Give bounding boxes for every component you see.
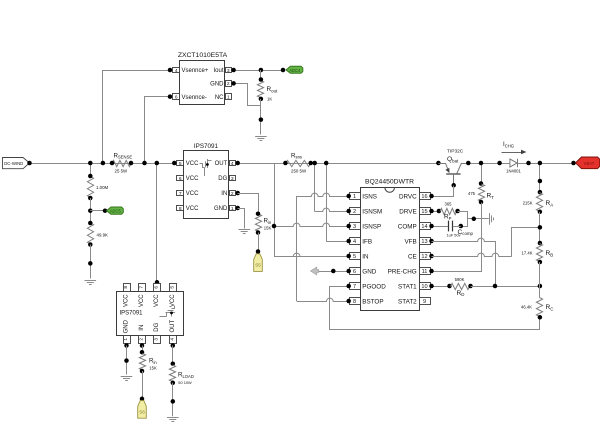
node input arrow at GND pin6 (311, 267, 351, 275)
resistor RC 46.4K (536, 298, 542, 320)
wire U1 pin2 to Rin (238, 194, 259, 214)
svg-text:GND: GND (214, 206, 228, 212)
wire RA to junction (538, 212, 543, 243)
svg-text:365: 365 (445, 201, 453, 206)
pin 2 U3 (ISNSM) (350, 208, 383, 216)
pin 1 U2 (226, 94, 232, 101)
label RD (455, 277, 465, 297)
pin 14 U3 (COMP) (398, 223, 431, 231)
pin 4 U3 (IFB) (350, 238, 373, 246)
svg-text:475: 475 (468, 191, 476, 196)
pin 6 U3 (GND) (350, 268, 377, 276)
pin 4 U1 (230, 161, 240, 167)
pin 1 U1 (230, 206, 240, 212)
resistor 1.00M (87, 174, 93, 201)
resistor Rsns (283, 160, 313, 166)
svg-text:VCC: VCC (170, 294, 176, 307)
node S5 tag (254, 254, 263, 272)
svg-text:10: 10 (421, 284, 427, 290)
svg-text:7: 7 (353, 284, 356, 290)
svg-text:DRVC: DRVC (399, 193, 417, 200)
svg-text:9: 9 (423, 299, 426, 305)
svg-text:1uF 50v: 1uF 50v (447, 233, 461, 238)
svg-text:12: 12 (421, 254, 427, 260)
pin 13 U3 (VFB) (404, 238, 430, 246)
svg-text:17.4K: 17.4K (522, 251, 533, 256)
pin 15 U3 (DRVE) (399, 208, 430, 216)
mosfet symbol inside U4 (160, 306, 176, 317)
svg-text:590K: 590K (455, 277, 465, 282)
svg-text:OUT: OUT (215, 161, 228, 167)
wire RP to COMP node (458, 212, 468, 229)
svg-text:15K: 15K (149, 366, 157, 371)
wire main DC-WIND bus (30, 163, 439, 165)
pin 8 U4 (123, 284, 131, 292)
wire divider middle (88, 198, 93, 223)
svg-text:5: 5 (179, 161, 182, 167)
svg-text:IFB: IFB (362, 238, 372, 245)
pin 9 U3 (STAT2) (398, 298, 430, 306)
svg-text:ISNS: ISNS (362, 193, 377, 200)
svg-text:15K: 15K (264, 226, 272, 231)
wire CE net (429, 228, 539, 259)
svg-text:2: 2 (227, 81, 230, 87)
svg-text:VCC: VCC (124, 294, 130, 307)
svg-text:3: 3 (227, 68, 230, 74)
label RLOAD (178, 372, 194, 386)
node S6 tag (138, 401, 147, 419)
svg-text:DG: DG (218, 176, 227, 182)
wire COMP to Ccomp (429, 224, 448, 229)
svg-text:1K: 1K (267, 96, 272, 101)
svg-text:ISNSP: ISNSP (362, 223, 381, 230)
svg-text:4: 4 (175, 68, 178, 74)
svg-text:PRE-CHG: PRE-CHG (388, 268, 417, 275)
wire DRVE to RP (429, 209, 441, 214)
wire bus to RA (538, 161, 543, 195)
svg-text:VCC: VCC (186, 176, 199, 182)
transistor Qbat TIP32C (436, 161, 470, 188)
pin 6 U2 (173, 94, 180, 101)
pin 7 U1 (177, 191, 184, 197)
svg-text:8: 8 (179, 206, 182, 212)
label U4 pin names (124, 294, 176, 334)
svg-text:BSTOP: BSTOP (362, 298, 383, 305)
resistor RB 17.4K (536, 241, 542, 265)
wire STAT1 to RD (429, 284, 452, 289)
svg-text:Vsennce-: Vsennce- (182, 95, 207, 101)
label RT (468, 191, 494, 200)
svg-text:8: 8 (123, 286, 129, 289)
svg-text:16: 16 (421, 194, 427, 200)
svg-text:VCC: VCC (186, 161, 199, 167)
pin 6 U1 (177, 176, 184, 182)
label Rin lower (149, 358, 157, 371)
pin 3 U2 (226, 68, 232, 74)
pin 1 U4 (123, 336, 131, 348)
pin 6 U4 (154, 284, 161, 292)
wire 49.9K to ground (88, 245, 93, 279)
wire VFB net (429, 238, 495, 286)
pin 5 U1 (172, 161, 183, 167)
ground (divider) (85, 281, 97, 285)
resistor RA 215K (536, 193, 542, 215)
label 1.00M (96, 185, 109, 190)
wire BSTOP net (pin8) (297, 298, 351, 303)
resistor RT 475 (478, 184, 484, 204)
wire DRVC to base (429, 186, 453, 199)
resistor RLOAD (169, 365, 175, 385)
wire RT to PRE-CHG (429, 203, 481, 274)
wire PGOOD net (pin7 to bottom rail) (330, 284, 540, 330)
svg-text:2: 2 (231, 191, 234, 197)
ic U3 BQ24450DWTR body (361, 179, 420, 311)
wire comp node to ground (468, 217, 489, 222)
pin 8 U3 (BSTOP) (350, 298, 384, 306)
wire ISNS net (pin1 to BSTOP riser) (297, 193, 351, 301)
label TIP32C (447, 149, 464, 155)
label RC (521, 304, 553, 311)
resistor Rin (upper) (255, 211, 261, 234)
svg-text:25 5W: 25 5W (115, 168, 129, 173)
pin 2 U4 (139, 336, 146, 348)
svg-text:5: 5 (169, 286, 175, 289)
pin 12 U3 (CE) (408, 253, 431, 261)
wire U4 pin2 to Rin2 (140, 346, 145, 355)
svg-text:5: 5 (353, 254, 356, 260)
svg-text:DRVE: DRVE (399, 208, 416, 215)
pin 10 U3 (STAT1) (398, 283, 430, 291)
svg-text:ZXCT1010E5TA: ZXCT1010E5TA (178, 52, 228, 59)
svg-text:49.9K: 49.9K (97, 233, 109, 238)
resistor Rout (257, 70, 263, 101)
svg-text:DG: DG (154, 322, 160, 331)
svg-text:4: 4 (169, 338, 175, 341)
ground (U1 pin1) (238, 230, 250, 234)
wire ISNSM net (pin2) (315, 208, 351, 213)
pin 2 U2 (226, 81, 232, 88)
svg-text:NC: NC (215, 95, 224, 101)
svg-text:2: 2 (353, 209, 356, 215)
resistor RSENSE (110, 160, 134, 166)
label RB (522, 250, 554, 257)
wire bus to U4 VCC pin6 (155, 161, 160, 285)
svg-text:1: 1 (123, 338, 129, 341)
wire Iout net (U2 pin3 to ADC4) (231, 68, 285, 73)
node ICHG current arrow (502, 141, 527, 154)
svg-text:6: 6 (179, 176, 182, 182)
svg-text:6: 6 (154, 286, 160, 289)
resistor 49.9K (87, 221, 93, 247)
svg-text:STAT2: STAT2 (398, 298, 417, 305)
label Qbat (447, 156, 459, 163)
ground (Rout) (255, 137, 267, 141)
svg-text:S5: S5 (255, 263, 261, 268)
svg-text:250 5W: 250 5W (291, 168, 307, 173)
wire U4 pin4 to RLOAD (171, 346, 176, 366)
svg-text:GND: GND (210, 82, 224, 88)
wire bus to IFB (324, 161, 329, 242)
svg-text:14: 14 (421, 224, 427, 230)
pin 8 U1 (177, 206, 184, 212)
resistor Rin lower 15K (139, 354, 145, 374)
wire bus to IN (vertical A) (275, 164, 349, 257)
pin 5 U3 (IN) (350, 253, 370, 261)
svg-text:1: 1 (353, 194, 356, 200)
svg-text:IPS7091: IPS7091 (120, 311, 144, 317)
svg-text:IN: IN (362, 253, 369, 260)
label Rsns (291, 152, 307, 173)
wire IFB net (pin4) (326, 239, 351, 244)
pin 1 U3 (ISNS) (350, 193, 378, 201)
svg-text:50 10W: 50 10W (178, 380, 192, 385)
svg-text:11: 11 (422, 269, 428, 275)
pin 4 U4 (169, 336, 176, 348)
svg-text:1: 1 (227, 94, 230, 100)
wire ISNSP net (pin3) (272, 223, 351, 228)
node ADC5 tag (107, 207, 124, 214)
svg-text:BQ24450DWTR: BQ24450DWTR (365, 179, 414, 186)
label RSENSE value (114, 152, 133, 173)
wire bus to RT (479, 161, 484, 186)
wire Rin to S5 (256, 233, 261, 254)
pin 5 U4 (169, 284, 176, 292)
svg-text:8: 8 (353, 299, 356, 305)
node DC-WIND input tag (3, 158, 32, 169)
pin 2 U1 (230, 191, 240, 197)
svg-text:4: 4 (353, 239, 356, 245)
svg-text:ADC5: ADC5 (110, 209, 122, 214)
svg-text:1: 1 (231, 206, 234, 212)
svg-text:VBAT: VBAT (584, 161, 595, 166)
svg-text:CE: CE (408, 253, 417, 260)
mosfet symbol inside U1 (200, 159, 212, 176)
svg-text:TIP32C: TIP32C (447, 149, 464, 155)
pin 3 U3 (ISNSP) (350, 223, 382, 231)
wire U2 pin2 GND net (231, 81, 260, 105)
capacitor Ccomp (449, 221, 461, 232)
svg-text:46.4K: 46.4K (521, 305, 532, 310)
label U1 pin names (186, 161, 228, 212)
wire IN net hop (274, 253, 351, 258)
node VBAT output tag (571, 157, 600, 169)
wire Vsennce- net (bus to U2 pin6) (142, 94, 172, 165)
label Rout value (267, 86, 279, 101)
label Rin upper (264, 218, 272, 231)
svg-text:13: 13 (421, 239, 427, 245)
wire RB to junction (539, 262, 541, 286)
svg-text:7: 7 (179, 191, 182, 197)
wire ADC5 stub (90, 208, 107, 213)
wire Vsennce+ net (bus to U2 pin4) (101, 68, 173, 166)
svg-text:STAT1: STAT1 (398, 283, 417, 290)
diode D1 1N4001 (497, 159, 530, 174)
wire RD to divider (471, 284, 543, 289)
svg-text:3: 3 (154, 338, 160, 341)
svg-text:VCC: VCC (186, 191, 199, 197)
label U2 pin names (182, 68, 225, 101)
svg-text:IPS7091: IPS7091 (194, 143, 219, 150)
svg-text:VCC: VCC (154, 294, 160, 307)
pin 16 U3 (DRVC) (399, 193, 431, 201)
wire U1 pin1 to ground (238, 209, 245, 229)
svg-text:1.00M: 1.00M (96, 185, 109, 190)
op-amp U2 ZXCT1010E5TA body (178, 52, 228, 104)
wire RLOAD to ground (171, 383, 176, 416)
svg-text:VCC: VCC (139, 294, 145, 307)
svg-text:PGOOD: PGOOD (362, 283, 386, 290)
svg-text:S6: S6 (139, 409, 145, 414)
svg-text:4: 4 (231, 161, 234, 167)
svg-text:GND: GND (362, 268, 376, 275)
svg-text:ISNSM: ISNSM (362, 208, 382, 215)
wire Rout to ground (259, 99, 264, 135)
wire U4 pin1 to ground (124, 346, 129, 375)
svg-text:IN: IN (221, 191, 227, 197)
svg-text:ADC4: ADC4 (289, 68, 301, 73)
wire bus to ISNSM (312, 161, 317, 212)
ground (RLOAD) (167, 418, 179, 422)
node ADC4 tag (286, 66, 303, 73)
label Ccomp (447, 229, 474, 238)
svg-text:2: 2 (139, 338, 145, 341)
resistor RD 590K (451, 283, 473, 289)
wire junction to RC (539, 286, 541, 298)
label RA (523, 200, 554, 207)
pin 7 U3 (PGOOD) (350, 283, 387, 291)
svg-text:7: 7 (139, 286, 145, 289)
pin 4 U2 (173, 68, 180, 74)
ic U1 IPS7091 body (184, 143, 229, 219)
svg-text:6: 6 (353, 269, 356, 275)
svg-text:3: 3 (353, 224, 356, 230)
wire bus to R divider (88, 161, 93, 177)
ground (sideways, comp) (490, 213, 494, 225)
ground (U4 GND) (121, 377, 133, 381)
wire bus diode-to-VBAT segment (517, 163, 576, 165)
resistor RP 365 (440, 208, 460, 214)
svg-text:IN: IN (139, 325, 145, 331)
svg-text:OUT: OUT (170, 320, 176, 333)
svg-text:VCC: VCC (186, 206, 199, 212)
label 49.9K (97, 233, 109, 238)
svg-text:15: 15 (421, 209, 427, 215)
label RP (444, 201, 452, 221)
svg-text:215K: 215K (523, 201, 533, 206)
pin 3 U4 (154, 336, 161, 344)
svg-text:DC-WIND: DC-WIND (4, 161, 23, 166)
svg-text:3: 3 (231, 176, 234, 182)
svg-text:1N4001: 1N4001 (506, 169, 521, 174)
svg-text:Iout: Iout (213, 68, 223, 74)
svg-text:Vsennce+: Vsennce+ (182, 68, 209, 74)
wire bus collector-to-diode segment (468, 163, 510, 165)
svg-text:6: 6 (175, 94, 178, 100)
pin 11 U3 (PRE-CHG) (388, 268, 431, 276)
svg-text:COMP: COMP (398, 223, 417, 230)
svg-text:GND: GND (124, 319, 130, 333)
wire Rin2 to S6 (140, 371, 145, 401)
pin 7 U4 (139, 284, 146, 292)
svg-text:VFB: VFB (404, 238, 416, 245)
ic U4 IPS7091 body (117, 292, 184, 336)
pin 3 U1 (230, 176, 236, 182)
